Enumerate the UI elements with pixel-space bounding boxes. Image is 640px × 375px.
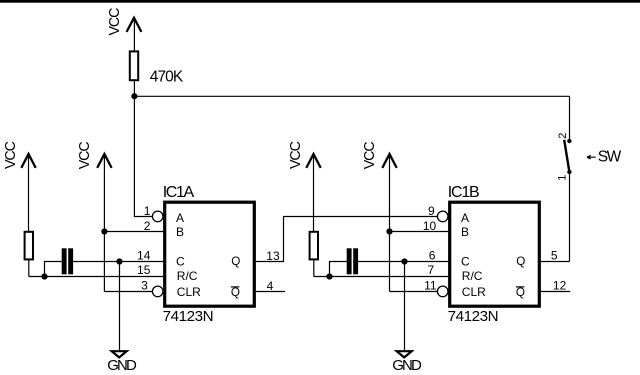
svg-text:6: 6	[429, 248, 436, 262]
svg-text:B: B	[176, 225, 184, 239]
svg-text:3: 3	[141, 279, 148, 293]
svg-text:12: 12	[553, 279, 567, 293]
svg-text:10: 10	[423, 219, 437, 233]
svg-text:9: 9	[428, 204, 435, 218]
svg-text:R/C: R/C	[462, 269, 483, 283]
svg-text:VCC: VCC	[3, 141, 19, 169]
svg-text:IC1B: IC1B	[448, 184, 480, 201]
svg-text:13: 13	[266, 249, 280, 263]
svg-text:VCC: VCC	[288, 141, 304, 169]
svg-text:2: 2	[557, 133, 569, 139]
svg-text:Q: Q	[231, 255, 240, 268]
svg-text:11: 11	[424, 279, 437, 293]
svg-text:Q: Q	[516, 286, 525, 299]
svg-text:14: 14	[137, 248, 151, 262]
svg-text:1: 1	[144, 204, 151, 218]
svg-text:7: 7	[428, 263, 435, 277]
svg-text:C: C	[176, 255, 185, 269]
svg-text:GND: GND	[392, 357, 422, 374]
svg-text:R/C: R/C	[177, 269, 198, 283]
svg-text:74123N: 74123N	[163, 308, 214, 325]
svg-text:A: A	[176, 211, 184, 225]
svg-text:Q: Q	[516, 255, 525, 268]
svg-text:VCC: VCC	[107, 8, 123, 36]
svg-text:2: 2	[144, 219, 151, 233]
svg-text:74123N: 74123N	[448, 308, 499, 325]
svg-text:VCC: VCC	[362, 141, 378, 169]
svg-text:CLR: CLR	[462, 285, 486, 299]
svg-text:1: 1	[557, 175, 569, 181]
svg-text:A: A	[461, 211, 469, 225]
svg-text:CLR: CLR	[177, 285, 201, 299]
svg-text:5: 5	[551, 248, 558, 262]
svg-text:15: 15	[137, 263, 151, 277]
svg-text:470K: 470K	[150, 68, 184, 85]
svg-text:VCC: VCC	[77, 141, 93, 169]
svg-text:SW: SW	[598, 148, 622, 165]
svg-text:C: C	[461, 255, 470, 269]
svg-text:B: B	[461, 225, 469, 239]
svg-text:4: 4	[267, 279, 274, 293]
svg-text:Q: Q	[231, 286, 240, 299]
svg-text:GND: GND	[107, 357, 137, 374]
svg-text:IC1A: IC1A	[163, 184, 195, 201]
